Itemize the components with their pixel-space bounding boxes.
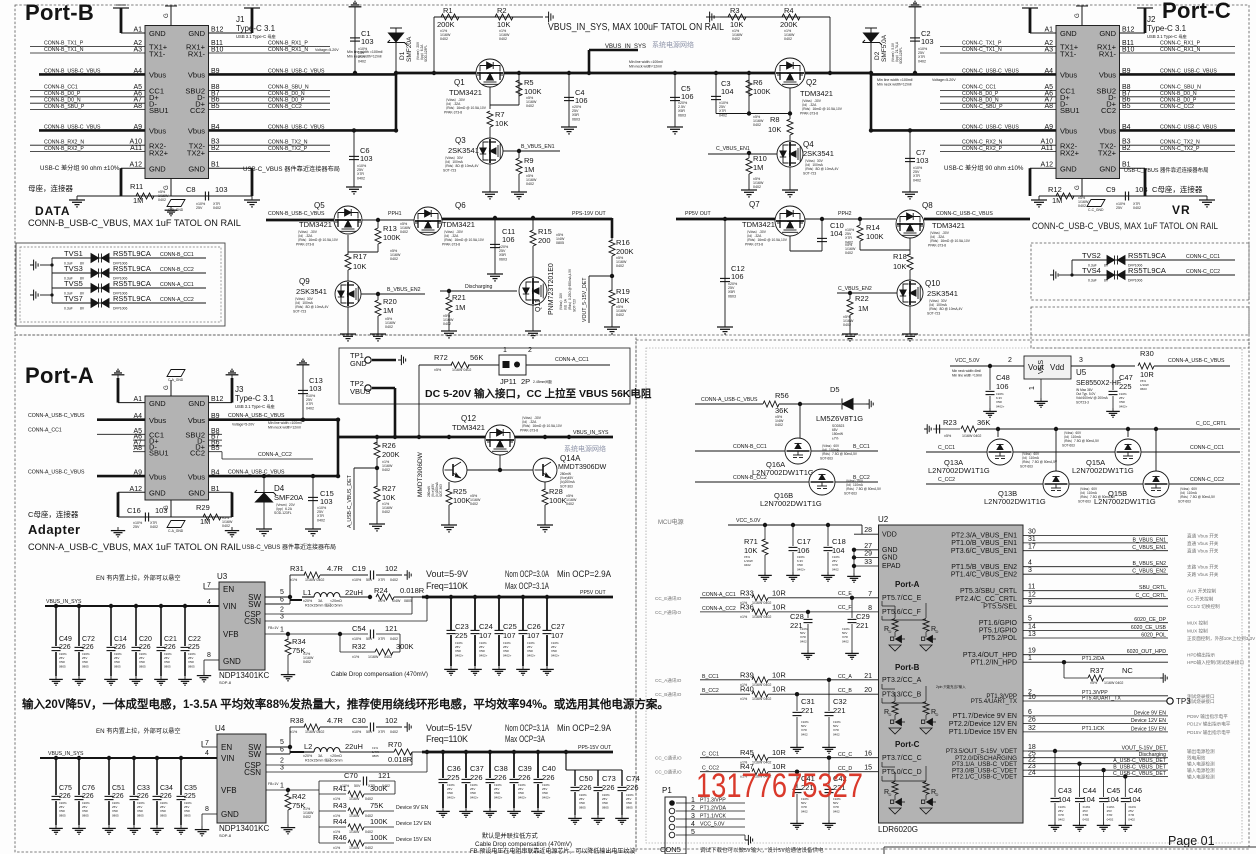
wire C6 lead xyxy=(353,130,355,183)
wire B1 ground bar xyxy=(251,168,254,196)
wire C41 lead xyxy=(796,772,798,788)
wire U2 pin 11 stub xyxy=(1023,590,1048,592)
svg-text:225: 225 xyxy=(184,793,196,800)
svg-text:CONN-A_USB-C_VBUS: CONN-A_USB-C_VBUS xyxy=(701,397,758,403)
svg-text:D5: D5 xyxy=(830,385,840,394)
wire C50 subrail xyxy=(565,752,567,770)
resistor R38 xyxy=(304,724,320,730)
wire R15 to Q11 xyxy=(532,246,534,277)
capacitor C8 xyxy=(205,192,208,201)
svg-text:C72: C72 xyxy=(82,636,95,643)
svg-text:G: G xyxy=(164,13,170,18)
wire rd cell xyxy=(894,795,896,800)
wire R14 lead xyxy=(859,219,861,225)
svg-text:10K: 10K xyxy=(497,20,510,29)
svg-text:R40: R40 xyxy=(740,685,754,694)
wire U2 pin 24 stub xyxy=(1023,775,1048,777)
svg-text:GND: GND xyxy=(1060,165,1077,174)
svg-text:CONN-B_TX1_N: CONN-B_TX1_N xyxy=(44,47,84,53)
svg-text:1/16W: 1/16W xyxy=(349,797,360,801)
svg-text:CONN-B_SBU_P: CONN-B_SBU_P xyxy=(44,104,85,110)
wire A7 stub xyxy=(133,445,145,447)
capacitor C33 xyxy=(130,796,139,799)
wire net 6020_POL xyxy=(1048,637,1168,639)
wire rd cell xyxy=(925,632,927,637)
svg-text:CONN-B_CC2: CONN-B_CC2 xyxy=(160,267,194,273)
svg-text:A_USB-C_VBUS_DET: A_USB-C_VBUS_DET xyxy=(347,474,353,528)
svg-text:20: 20 xyxy=(864,687,872,694)
svg-text:直通 Vbus 开关: 直通 Vbus 开关 xyxy=(1187,548,1219,555)
svg-text:PT1.7/Device 9V EN: PT1.7/Device 9V EN xyxy=(953,713,1017,720)
wire U2 pin 26 stub xyxy=(1023,723,1048,725)
capacitor C49 xyxy=(52,647,61,650)
svg-text:R22: R22 xyxy=(855,294,869,303)
capacitor C42 xyxy=(825,789,834,792)
capacitor C48 xyxy=(986,391,995,394)
svg-text:106: 106 xyxy=(575,96,588,105)
ground C29 xyxy=(845,650,859,659)
svg-text:Vout=5-9V: Vout=5-9V xyxy=(426,569,468,579)
wire U2 pin 23 stub xyxy=(1023,769,1048,771)
wire R24 to PP5V xyxy=(394,596,422,598)
ground J3 A1 xyxy=(112,369,125,378)
wire U2 pin 25 stub xyxy=(1023,757,1048,759)
svg-text:6: 6 xyxy=(280,597,284,604)
svg-text:C_VBUS_EN2: C_VBUS_EN2 xyxy=(838,286,872,292)
svg-text:C_CC1: C_CC1 xyxy=(702,752,719,758)
svg-text:0805: 0805 xyxy=(137,813,144,817)
wire P1 pin5 gnd xyxy=(744,835,746,840)
svg-text:200K: 200K xyxy=(437,20,455,29)
resistor R31 xyxy=(304,572,320,578)
svg-text:CONN-A_USB-C_VBUS, MAX 1uF TAT: CONN-A_USB-C_VBUS, MAX 1uF TATOL ON RAIL xyxy=(28,542,241,552)
svg-text:SOT-663: SOT-663 xyxy=(1020,464,1033,468)
wire CONN-B_USB-C_VBUS xyxy=(209,129,397,132)
svg-text:X7R: X7R xyxy=(378,730,385,734)
svg-text:B_VBUS_EN2: B_VBUS_EN2 xyxy=(387,287,421,293)
svg-text:GND: GND xyxy=(221,810,239,819)
svg-text:RX1-: RX1- xyxy=(188,50,206,59)
wire R18 to Q10 xyxy=(909,270,911,280)
svg-text:TDM3421: TDM3421 xyxy=(800,89,833,98)
wire CONN-B_D0_N xyxy=(30,102,145,104)
transistor Q6 TDM3421 xyxy=(414,207,442,235)
svg-text:19: 19 xyxy=(1028,648,1036,655)
capacitor C9 xyxy=(1125,192,1128,201)
svg-text:CC_B: CC_B xyxy=(838,688,852,694)
svg-text:3A: 3A xyxy=(318,754,323,758)
wire CONN-B_CC2 xyxy=(209,109,331,111)
capacitor C47 xyxy=(1109,391,1118,394)
wire Q10 gnd xyxy=(909,306,911,330)
svg-text:100K: 100K xyxy=(453,496,471,505)
wire CONN-A_USB-C_VBUS to R56 xyxy=(695,403,763,405)
wire U3 GND stub xyxy=(204,659,219,661)
svg-text:CONN-A_USB-C_VBUS: CONN-A_USB-C_VBUS xyxy=(228,413,285,419)
svg-text:0805: 0805 xyxy=(139,664,146,668)
tvs diode TVS7 RS5TL9CA xyxy=(91,299,109,308)
wire C70 right xyxy=(369,780,395,782)
ground Q10 xyxy=(902,330,918,341)
svg-text:104: 104 xyxy=(1107,795,1120,804)
svg-text:<20mΩ: <20mΩ xyxy=(330,754,342,758)
svg-text:107: 107 xyxy=(551,631,564,640)
svg-text:R7: R7 xyxy=(495,110,505,119)
svg-text:CONN-B_CC2: CONN-B_CC2 xyxy=(268,104,302,110)
svg-text:PT3.3/CC_B: PT3.3/CC_B xyxy=(882,691,922,698)
svg-text:C_CC2: C_CC2 xyxy=(938,477,955,483)
svg-text:JP11: JP11 xyxy=(500,377,517,386)
svg-text:3A: 3A xyxy=(318,599,323,603)
svg-text:14: 14 xyxy=(1028,623,1036,630)
ground arrow rd cell xyxy=(920,645,932,651)
svg-text:107: 107 xyxy=(527,631,540,640)
svg-text:Adapter: Adapter xyxy=(28,522,81,537)
wire R16 R19 node xyxy=(611,256,613,291)
transistor Q13A L2N7002DW1T1G xyxy=(987,439,1013,465)
capacitor R23 bypass xyxy=(936,425,939,434)
svg-text:B5: B5 xyxy=(211,103,220,110)
ground C32 xyxy=(822,744,836,753)
svg-text:CONN-B_RX1_P: CONN-B_RX1_P xyxy=(268,41,308,47)
resistor R22 xyxy=(847,299,853,315)
ground R3 xyxy=(706,12,714,23)
frame Port-C TVS box xyxy=(1031,243,1249,300)
resistor R7 xyxy=(487,111,493,127)
svg-text:B5: B5 xyxy=(1122,103,1131,110)
diode D2 xyxy=(863,33,883,45)
svg-text:FB 预设电压在电阻串联靠近电源芯片，可以降低输出电压纹波: FB 预设电压在电阻串联靠近电源芯片，可以降低输出电压纹波 xyxy=(470,847,635,854)
svg-text:B1: B1 xyxy=(211,486,220,493)
ground R19 xyxy=(604,323,620,334)
svg-text:C37: C37 xyxy=(470,764,484,773)
svg-text:调试下载也可以做5V输入，设计5V给通信设备供电: 调试下载也可以做5V输入，设计5V给通信设备供电 xyxy=(700,846,824,854)
ground R11 left xyxy=(69,196,85,207)
svg-text:D: D xyxy=(889,792,892,797)
wire Port-A VBUS rail xyxy=(338,436,613,439)
svg-text:PT1.1/CK: PT1.1/CK xyxy=(1082,726,1105,732)
resistor R36 xyxy=(752,609,768,615)
svg-text:Voltage=5-20V: Voltage=5-20V xyxy=(315,48,339,52)
svg-text:PT5.5/SEL: PT5.5/SEL xyxy=(983,603,1017,610)
svg-text:0805: 0805 xyxy=(59,813,66,817)
svg-text:C21: C21 xyxy=(164,636,177,643)
svg-text:±1%: ±1% xyxy=(290,730,298,734)
ground D4 xyxy=(256,525,272,536)
ground C21 xyxy=(154,676,168,685)
svg-text:X7R: X7R xyxy=(378,578,385,582)
frame right MCU section outer xyxy=(636,340,1249,849)
svg-text:5: 5 xyxy=(280,589,284,596)
svg-text:USB-C_VBUS 器件靠近连接器布局: USB-C_VBUS 器件靠近连接器布局 xyxy=(1124,166,1208,174)
svg-text:0402: 0402 xyxy=(358,59,366,63)
transistor Q13B L2N7002DW1T1G xyxy=(1043,471,1069,497)
svg-text:1/16W: 1/16W xyxy=(368,655,379,659)
svg-text:0805: 0805 xyxy=(602,805,609,809)
svg-text:A3: A3 xyxy=(133,47,142,54)
svg-text:102: 102 xyxy=(385,716,398,725)
resistor R20 xyxy=(375,300,381,316)
svg-text:0805: 0805 xyxy=(164,664,171,668)
wire R7 to Q3 xyxy=(489,127,491,139)
svg-text:输入20V降5V，一体成型电感，1-3.5A 平均效率88%: 输入20V降5V，一体成型电感，1-3.5A 平均效率88%发热量大，推荐使用绕… xyxy=(22,697,669,711)
wire C11 lead xyxy=(494,218,496,270)
svg-text:J3: J3 xyxy=(235,385,244,394)
net-tie C-A_GND bottom xyxy=(167,521,185,528)
wire C4 lead xyxy=(568,73,570,123)
frame right column box xyxy=(1031,307,1249,348)
wire R6 bottom node xyxy=(716,113,790,115)
svg-text:C27: C27 xyxy=(551,622,565,631)
svg-text:1/16W 0402: 1/16W 0402 xyxy=(752,761,771,765)
svg-text:C_VBUS_EN2: C_VBUS_EN2 xyxy=(1132,569,1166,575)
svg-text:Device 12V EN: Device 12V EN xyxy=(396,821,431,827)
ground C35 xyxy=(174,825,188,834)
svg-text:0402: 0402 xyxy=(1133,206,1141,210)
svg-text:0402: 0402 xyxy=(1083,817,1090,821)
svg-text:Port-B: Port-B xyxy=(25,0,94,25)
svg-text:CC_A: CC_A xyxy=(838,674,852,680)
wire U2 pin 5 stub xyxy=(1023,622,1048,624)
ground P1 xyxy=(745,835,753,845)
wire CONN-A_CC1 xyxy=(97,433,145,435)
wire CONN-B_TX1_P xyxy=(30,46,145,48)
svg-text:1/16W 0402: 1/16W 0402 xyxy=(452,368,471,372)
wire C49 lead xyxy=(55,606,57,646)
svg-text:100K: 100K xyxy=(383,233,401,242)
ground C4 xyxy=(561,123,577,134)
ground R71 xyxy=(758,572,772,581)
wire CONN-B_CC1 xyxy=(30,89,145,91)
svg-text:CONN-B_D0_P: CONN-B_D0_P xyxy=(1160,97,1197,103)
wire U2 pin 31 stub xyxy=(1023,542,1048,544)
wire C24 lead xyxy=(474,597,476,630)
svg-text:2.45mm间距: 2.45mm间距 xyxy=(533,379,553,384)
diode D5 xyxy=(842,399,853,410)
svg-text:GND: GND xyxy=(188,489,205,498)
wire CONN-C_USB-C_VBUS xyxy=(1120,73,1236,76)
svg-text:Device 9V EN: Device 9V EN xyxy=(396,805,429,811)
svg-text:（Id）1A: （Id）1A xyxy=(563,298,568,312)
svg-text:C33: C33 xyxy=(137,785,150,792)
wire B_CC2 to U2 xyxy=(768,693,854,695)
transistor Q15B L2N7002DW1T1G xyxy=(1143,471,1169,497)
svg-text:Q12: Q12 xyxy=(461,414,477,423)
svg-text:1/16W 0402: 1/16W 0402 xyxy=(305,730,324,734)
svg-text:CONN-B_CC1: CONN-B_CC1 xyxy=(160,252,194,258)
svg-text:CONN-A_CC1: CONN-A_CC1 xyxy=(702,592,736,598)
capacitor C40 xyxy=(534,779,543,782)
ground C26 xyxy=(516,666,530,675)
wire C14 lead xyxy=(110,606,112,646)
connector P1 pin 2 xyxy=(669,808,675,814)
svg-text:CONN-A_CC1: CONN-A_CC1 xyxy=(160,282,194,288)
wire Q15A gate xyxy=(1127,429,1129,437)
svg-text:R23: R23 xyxy=(943,418,957,427)
ground C47 xyxy=(1106,408,1120,417)
svg-text:CONN-A_CC2: CONN-A_CC2 xyxy=(702,606,736,612)
svg-text:CONN-B_USB-C_VBUS, MAX 1uF TAT: CONN-B_USB-C_VBUS, MAX 1uF TATOL ON RAIL xyxy=(28,218,241,228)
svg-text:±5%: ±5% xyxy=(434,368,442,372)
svg-text:R41: R41 xyxy=(333,784,347,793)
svg-text:R25: R25 xyxy=(453,487,467,496)
wire CONN-C_CC1 xyxy=(940,89,1056,91)
svg-text:0805: 0805 xyxy=(112,813,119,817)
svg-text:25V: 25V xyxy=(196,206,203,210)
svg-text:0402+: 0402+ xyxy=(551,653,560,657)
ground C50 xyxy=(568,815,582,824)
capacitor C46 xyxy=(1121,798,1130,801)
ground J3 right xyxy=(225,527,239,537)
resistor R14 xyxy=(857,225,863,241)
svg-text:4.7R: 4.7R xyxy=(327,564,343,573)
svg-text:SOT-663: SOT-663 xyxy=(820,456,833,460)
wire C29 lead xyxy=(851,598,853,618)
svg-text:1M: 1M xyxy=(383,306,393,315)
svg-text:106: 106 xyxy=(797,546,810,555)
ground TVS upper xyxy=(30,260,38,271)
wire R26 lead xyxy=(376,437,378,444)
wire CONN-C_SBU_P xyxy=(940,109,1056,111)
wire C54 row xyxy=(340,633,368,635)
svg-text:RS5TL9CA: RS5TL9CA xyxy=(1128,266,1166,275)
svg-text:Nom OCP=3.1A: Nom OCP=3.1A xyxy=(505,723,549,733)
svg-text:VBUS_IN_SYS, MAX 100uF TATOL O: VBUS_IN_SYS, MAX 100uF TATOL ON RAIL xyxy=(548,21,724,33)
svg-text:CC 开关控制: CC 开关控制 xyxy=(1187,596,1214,603)
svg-text:母座，连接器: 母座，连接器 xyxy=(28,183,73,193)
svg-text:C17: C17 xyxy=(797,537,811,546)
wire R13 to R17 link xyxy=(377,244,379,252)
svg-text:PT1.2/DA: PT1.2/DA xyxy=(1082,656,1105,662)
svg-text:Min neck width=12mil: Min neck width=12mil xyxy=(877,82,912,86)
wire C2 lead xyxy=(914,10,916,73)
svg-text:1/16W 0402: 1/16W 0402 xyxy=(305,578,324,582)
wire CONN-B_TX2_P xyxy=(209,151,331,153)
svg-text:SOD-123FL: SOD-123FL xyxy=(274,511,292,515)
svg-text:R31: R31 xyxy=(290,564,304,573)
svg-text:27: 27 xyxy=(864,543,872,550)
svg-text:R18: R18 xyxy=(893,252,907,261)
ground C73 xyxy=(591,815,605,824)
svg-text:0402: 0402 xyxy=(913,178,921,182)
wire net pin2 xyxy=(1048,695,1168,697)
wire J1 bottom G stub xyxy=(170,179,172,197)
svg-text:4: 4 xyxy=(205,750,209,757)
svg-text:2SK3541: 2SK3541 xyxy=(448,146,479,155)
wire R9 lead xyxy=(518,151,520,158)
svg-text:R11: R11 xyxy=(130,182,143,191)
ground R28 xyxy=(537,521,553,532)
svg-text:G: G xyxy=(1075,185,1081,190)
frame right MCU section inner xyxy=(646,348,1242,843)
svg-text:支路 Vbus 开关: 支路 Vbus 开关 xyxy=(1187,564,1219,571)
wire U2 pin 32 stub xyxy=(1023,731,1048,733)
resistor R33 xyxy=(752,595,768,601)
wire J2 A12 stub xyxy=(1030,167,1056,169)
svg-text:P1: P1 xyxy=(662,786,672,795)
svg-text:25V: 25V xyxy=(1116,206,1123,210)
svg-text:PT5.4/UART_TX: PT5.4/UART_TX xyxy=(971,698,1017,705)
wire B_CC1 out xyxy=(811,450,878,452)
ground R21 xyxy=(441,327,457,338)
ground R23 xyxy=(924,424,931,434)
svg-text:MCU电源: MCU电源 xyxy=(658,518,684,526)
capacitor C27 xyxy=(543,630,552,633)
wire C50 lead xyxy=(574,770,576,786)
wire CONN-B_RX1_N xyxy=(209,52,331,54)
connector J1 body xyxy=(145,26,209,179)
svg-text:PT3.6/C_VBUS_EN1: PT3.6/C_VBUS_EN1 xyxy=(951,548,1017,555)
svg-text:A1: A1 xyxy=(1044,27,1053,34)
svg-text:2: 2 xyxy=(280,607,284,614)
svg-text:R45: R45 xyxy=(740,748,754,757)
ground C31 xyxy=(790,744,804,753)
wire R4 to rail xyxy=(829,17,831,73)
svg-text:0402: 0402 xyxy=(384,655,392,659)
svg-text:0402: 0402 xyxy=(443,322,451,326)
capacitor C41 xyxy=(793,789,802,792)
net-tie C-B_GND xyxy=(167,200,185,207)
wire net Device 9V EN xyxy=(1048,715,1168,717)
capacitor C76 xyxy=(75,796,84,799)
svg-text:L2: L2 xyxy=(304,742,312,751)
svg-text:D: D xyxy=(936,629,939,634)
wire C3 lead xyxy=(715,73,717,114)
svg-text:CONN-C_RX1_P: CONN-C_RX1_P xyxy=(1160,41,1201,47)
wire rd cell xyxy=(894,632,896,637)
capacitor C26 xyxy=(519,630,528,633)
svg-text:TVS3: TVS3 xyxy=(64,264,83,273)
svg-text:100K: 100K xyxy=(524,87,542,96)
wire C17 lead xyxy=(792,525,794,546)
svg-text:Vbus: Vbus xyxy=(149,416,166,425)
svg-text:TVS2: TVS2 xyxy=(1082,251,1101,260)
svg-text:R70: R70 xyxy=(388,740,402,749)
svg-text:10R: 10R xyxy=(772,588,786,597)
svg-text:PD9V 输出指示电平: PD9V 输出指示电平 xyxy=(1187,713,1228,720)
svg-text:±1%: ±1% xyxy=(352,655,360,659)
wire Q13A gate xyxy=(997,429,999,437)
svg-text:NC: NC xyxy=(1122,666,1133,675)
svg-text:SOT-663: SOT-663 xyxy=(844,491,857,495)
frame TP / DC input box xyxy=(339,348,630,404)
wire R28 gnd xyxy=(544,505,546,521)
svg-text:0805: 0805 xyxy=(160,813,167,817)
tvs diode TVS4 RS5TL9CA xyxy=(1107,271,1125,280)
svg-text:56K: 56K xyxy=(470,353,483,362)
svg-text:2pin 只能充当7输入: 2pin 只能充当7输入 xyxy=(936,684,966,689)
wire C40 lead xyxy=(537,752,539,778)
wire CONN-C_RX2_P xyxy=(940,151,1056,153)
ground C40 xyxy=(531,808,545,817)
svg-text:RX1-: RX1- xyxy=(1099,50,1117,59)
svg-text:PT3.4/OUT_HPD: PT3.4/OUT_HPD xyxy=(963,652,1017,659)
svg-text:25V: 25V xyxy=(133,525,140,529)
capacitor C73 xyxy=(594,787,603,790)
wire net C_USB-C_VBUS_DET xyxy=(1048,775,1168,777)
svg-text:103: 103 xyxy=(916,156,929,165)
svg-text:1M: 1M xyxy=(1052,196,1062,205)
svg-text:Q11: Q11 xyxy=(535,299,542,312)
wire PP5-15V rail xyxy=(422,751,613,754)
svg-text:1M: 1M xyxy=(455,303,465,312)
wire P1 pin 3 xyxy=(676,818,745,820)
svg-text:C26: C26 xyxy=(527,622,541,631)
svg-text:0402: 0402 xyxy=(616,264,624,268)
svg-text:CC_E: CC_E xyxy=(838,591,852,597)
svg-text:GND: GND xyxy=(1060,29,1077,38)
connector J3 pin numbers xyxy=(130,396,224,493)
